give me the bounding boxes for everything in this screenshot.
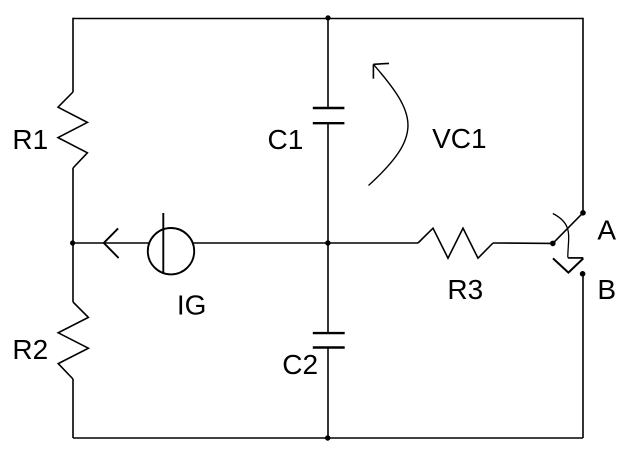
VC1 arrowhead — [373, 63, 389, 78]
wire middle vertical lower — [327, 349, 329, 439]
current source IG circle — [148, 228, 194, 274]
wire middle vertical upper — [327, 19, 329, 108]
wire bottom horizontal — [73, 437, 583, 439]
svg-text:IG: IG — [177, 290, 207, 321]
resistor R2 — [58, 302, 88, 379]
wire middle vertical center — [327, 124, 329, 332]
wire center horizontal left — [73, 242, 149, 244]
current source IG arrow — [104, 228, 119, 258]
wire left vertical lower — [72, 379, 74, 438]
wire left vertical upper — [72, 18, 74, 92]
svg-text:C2: C2 — [282, 349, 318, 380]
svg-text:R2: R2 — [12, 334, 48, 365]
resistor R1 — [58, 92, 87, 168]
node switch pivot — [550, 241, 556, 247]
node left middle — [70, 240, 75, 245]
current source IG bar — [162, 213, 164, 274]
wire right vertical upper — [582, 18, 584, 211]
wire top horizontal — [73, 18, 583, 20]
wire left vertical middle — [72, 168, 74, 302]
svg-text:C1: C1 — [268, 124, 304, 155]
node top middle — [325, 15, 330, 20]
svg-text:A: A — [597, 215, 616, 246]
node switch A contact — [580, 210, 586, 216]
svg-text:R3: R3 — [447, 274, 483, 305]
VC1 arc — [369, 64, 408, 185]
svg-text:B: B — [597, 274, 616, 305]
node switch B contact — [580, 271, 586, 277]
capacitor C2 — [313, 333, 345, 347]
switch blade — [553, 213, 583, 244]
capacitor C1 — [313, 108, 345, 123]
node center — [325, 240, 330, 245]
svg-text:VC1: VC1 — [432, 123, 486, 154]
wire center horizontal mid — [194, 242, 419, 244]
wire center horizontal right — [493, 242, 553, 244]
switch arrow chevron — [553, 258, 583, 272]
switch arrow bar — [568, 257, 584, 259]
svg-text:R1: R1 — [12, 124, 48, 155]
node bottom middle — [325, 435, 330, 440]
wire right vertical lower — [582, 276, 584, 438]
switch swing arc — [553, 214, 569, 258]
resistor R3 — [418, 228, 493, 258]
